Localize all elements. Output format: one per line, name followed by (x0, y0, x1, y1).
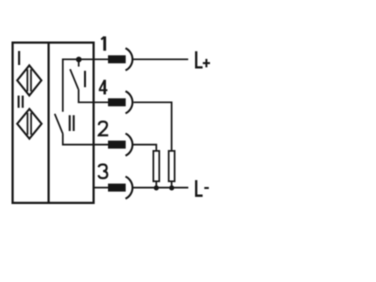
net label L- letter (196, 180, 202, 196)
pin number 4 (103, 80, 106, 95)
label II (switch II) (69, 115, 71, 131)
net label L+ plus sign (203, 62, 210, 64)
switch II blade (55, 114, 63, 134)
label I (sensor element I) (18, 51, 20, 65)
wire: R2 bottom stub (171, 182, 173, 188)
pin 1 socket arc (126, 48, 133, 70)
switch I blade (70, 69, 78, 89)
wire: switch II to pin 2 (63, 134, 109, 145)
pin 1 contact (plug) (108, 55, 126, 63)
wire: pin 3 stub from housing (94, 187, 109, 189)
node: junction dot R2 / L- rail (169, 185, 174, 190)
node: junction dot on pin1 rail (76, 57, 82, 63)
pin 2 contact (plug) (108, 141, 126, 149)
sensor housing box (13, 43, 94, 203)
pin 4 contact (plug) (108, 98, 126, 106)
sensor element I (diamond) (17, 65, 41, 95)
label II (sensor element II) (18, 96, 20, 108)
switch I top stub (78, 59, 80, 66)
net label L- minus sign (204, 187, 209, 189)
wire: pin 4 to resistor R2 (134, 102, 172, 150)
node: junction dot R1 / L- rail (154, 185, 159, 190)
pin 2 socket arc (126, 134, 133, 156)
wire: pin 1 common rail (top) (63, 59, 109, 111)
sensor element II (diamond) (17, 109, 41, 139)
sensor element II inner bars (27, 113, 29, 135)
wire: R1 bottom stub (155, 182, 157, 188)
resistor R1 (153, 151, 159, 181)
pin 3 socket arc (126, 177, 133, 199)
resistor R2 (169, 151, 175, 181)
wire: pin 1 to L+ (133, 58, 189, 60)
label I (switch I) (84, 71, 86, 87)
net label L+ letter (196, 51, 202, 67)
pin number 1 (103, 36, 106, 50)
pin 4 socket arc (126, 91, 133, 113)
sensor element I inner bars (26, 69, 28, 91)
pin number 3 (99, 164, 108, 178)
wire: switch I to pin 4 (79, 89, 109, 102)
housing divider (47, 43, 49, 203)
wire: pin 2 to resistor R1 (133, 145, 157, 151)
pin 3 contact (plug) (108, 184, 126, 192)
wire: pin 3 to L- rail (133, 187, 189, 189)
pin number 2 (99, 122, 108, 136)
